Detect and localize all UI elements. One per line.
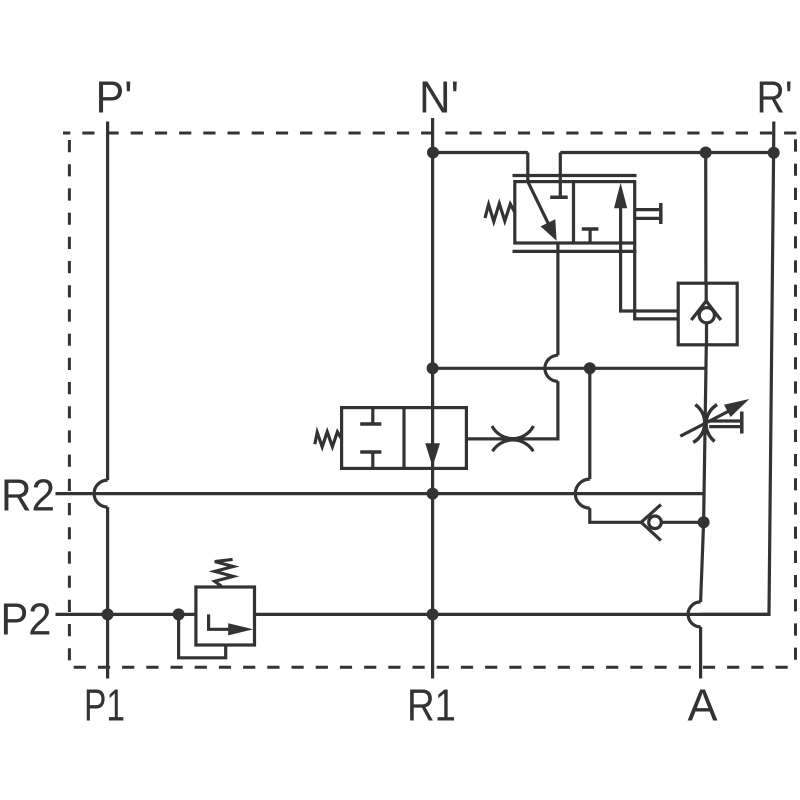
svg-text:R1: R1: [407, 680, 456, 731]
svg-text:P2: P2: [1, 594, 52, 645]
svg-text:P': P': [96, 72, 133, 123]
svg-text:R2: R2: [1, 470, 55, 521]
svg-text:P1: P1: [84, 680, 125, 731]
svg-text:A: A: [688, 680, 718, 731]
svg-text:N': N': [419, 72, 459, 123]
svg-text:R': R': [757, 72, 793, 123]
